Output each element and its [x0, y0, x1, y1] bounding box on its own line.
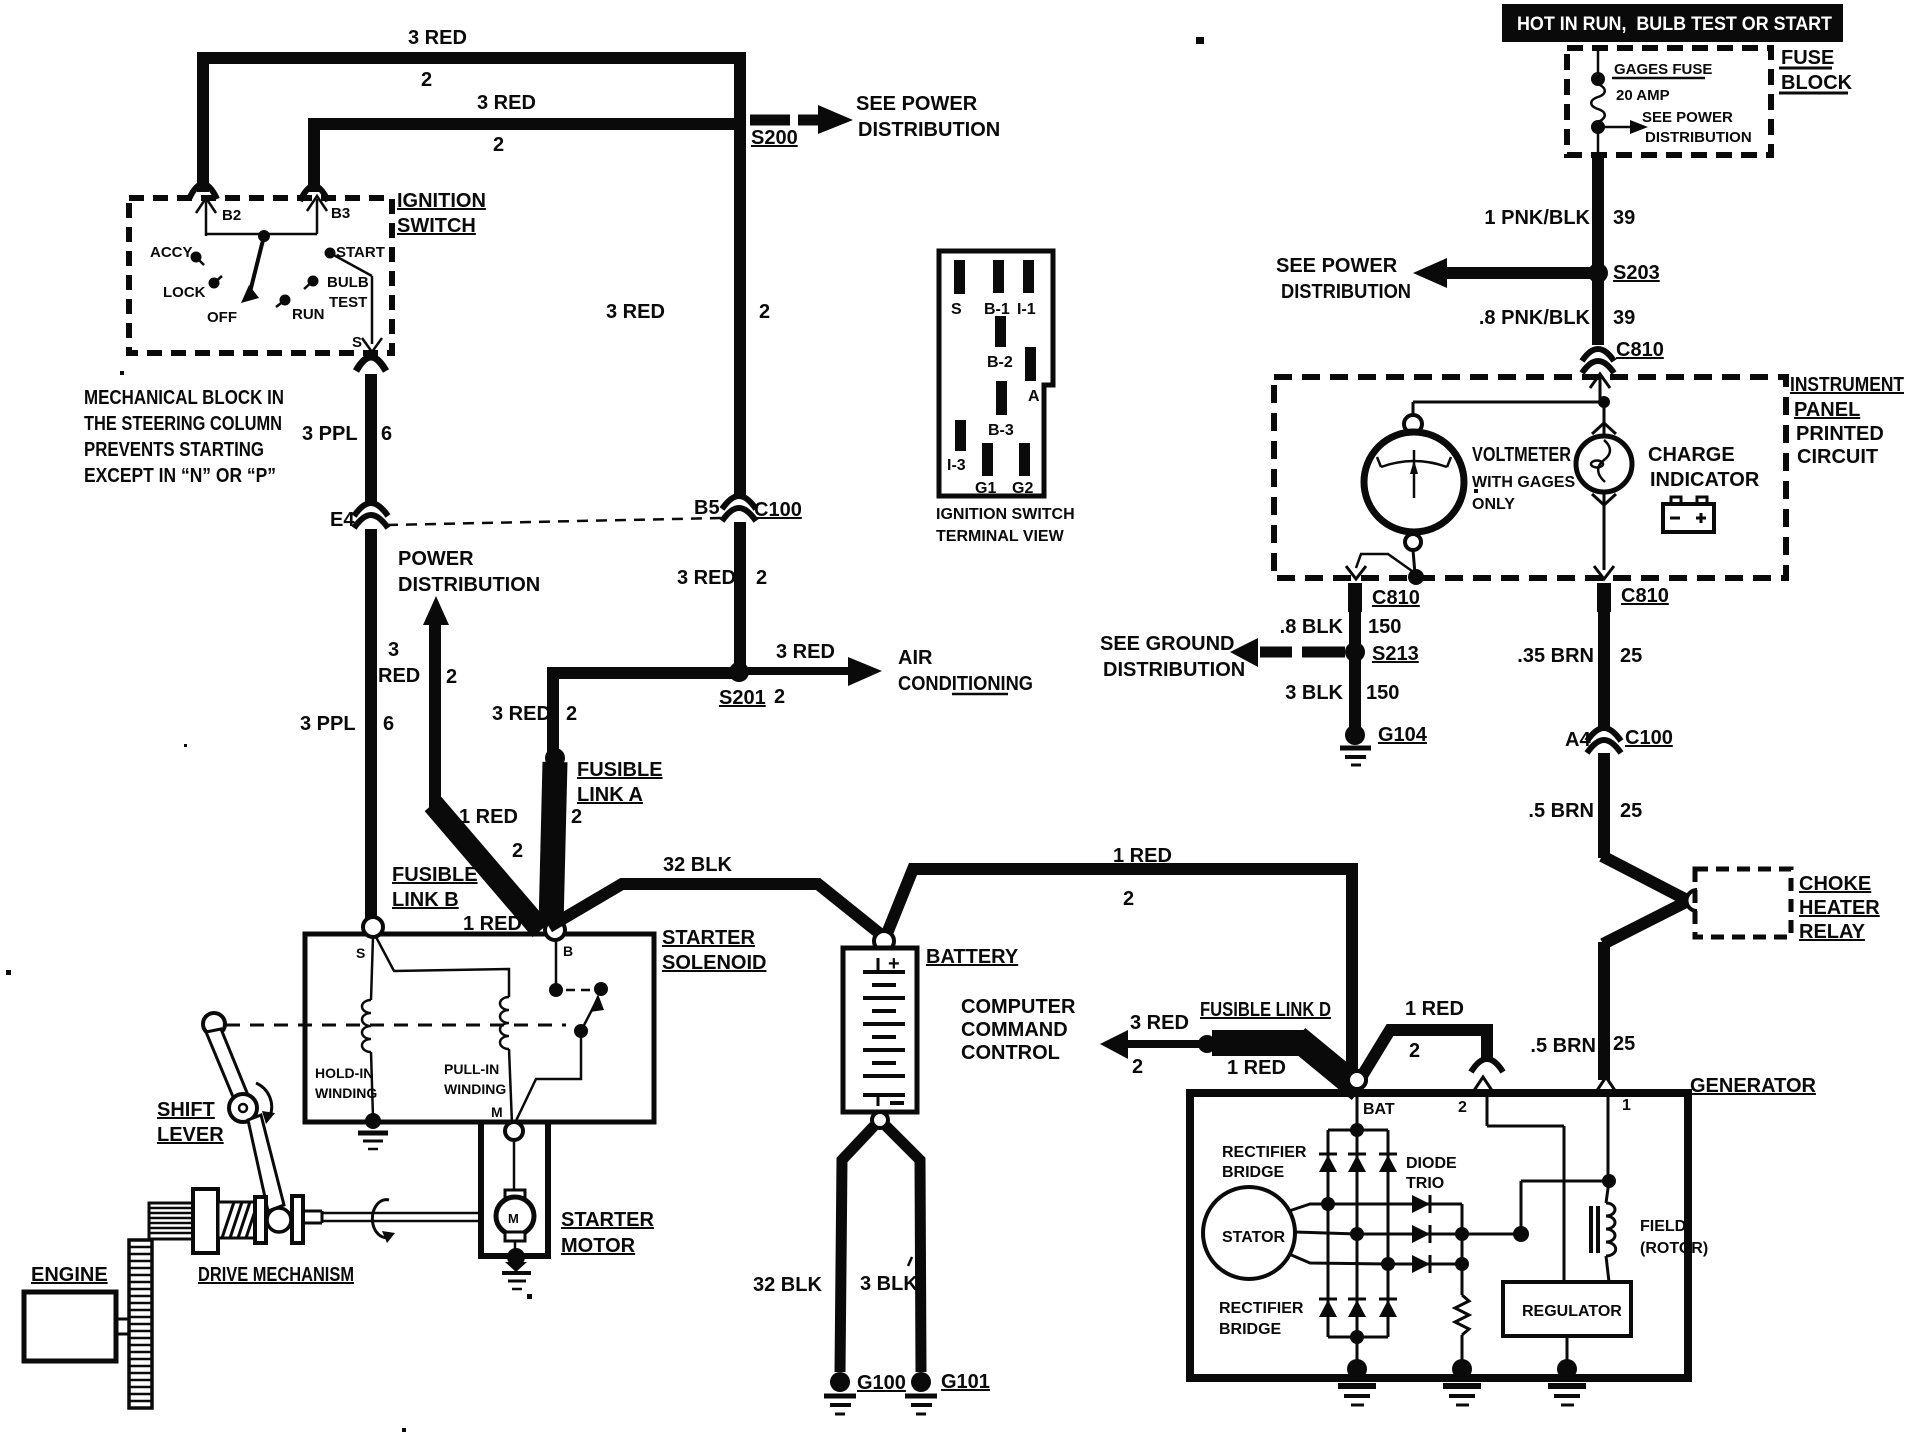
label CHOKE HEATER RELAY	[1799, 873, 1880, 943]
svg-text:WITH GAGES: WITH GAGES	[1472, 474, 1575, 491]
svg-text:C100: C100	[1625, 727, 1673, 749]
charge indicator lamp	[1576, 402, 1632, 579]
svg-text:1 PNK/BLK: 1 PNK/BLK	[1484, 207, 1590, 229]
svg-text:2: 2	[1458, 1099, 1467, 1116]
svg-text:S201: S201	[719, 687, 766, 709]
label 3 RED 2 (C100 wire)	[606, 301, 770, 323]
rectifier bottom bus	[1328, 1330, 1388, 1366]
svg-text:39: 39	[1613, 307, 1635, 329]
svg-text:DIODE: DIODE	[1406, 1155, 1457, 1172]
wire S201 to fusible link A	[492, 673, 739, 757]
svg-text:2: 2	[1132, 1056, 1143, 1078]
label DRIVE MECHANISM	[198, 1264, 354, 1286]
svg-text:2: 2	[571, 806, 582, 828]
wire trio to field node	[1462, 1174, 1616, 1242]
splice S213	[1345, 642, 1419, 665]
svg-text:S: S	[951, 301, 962, 318]
label RECTIFIER BRIDGE (bottom)	[1219, 1300, 1304, 1338]
wire 3 BLK S213 to G104	[1285, 652, 1399, 728]
svg-text:ENGINE: ENGINE	[31, 1264, 108, 1286]
svg-text:3 RED: 3 RED	[1130, 1012, 1189, 1034]
svg-text:25: 25	[1613, 1033, 1635, 1055]
svg-text:32 BLK: 32 BLK	[663, 854, 732, 876]
svg-text:SEE POWER: SEE POWER	[856, 93, 978, 115]
pin S	[951, 260, 965, 318]
wire 1 PNK/BLK fuse to S203	[1484, 155, 1635, 268]
wire regulator to ground	[1566, 1336, 1569, 1366]
svg-text:.5 BRN: .5 BRN	[1528, 800, 1594, 822]
solenoid moving contact arm	[514, 994, 604, 1125]
svg-text:THE STEERING COLUMN: THE STEERING COLUMN	[84, 413, 282, 435]
pin I-1	[1017, 260, 1036, 318]
terminal 1 arrow (generator)	[1596, 1077, 1631, 1114]
svg-text:25: 25	[1620, 645, 1642, 667]
svg-text:3 RED: 3 RED	[606, 301, 665, 323]
drive mechanism pinion	[149, 1203, 196, 1239]
svg-text:WINDING: WINDING	[315, 1085, 377, 1101]
svg-text:ACCY: ACCY	[150, 244, 193, 261]
svg-text:GAGES FUSE: GAGES FUSE	[1614, 61, 1712, 78]
label IGNITION SWITCH	[397, 190, 486, 237]
svg-text:RELAY: RELAY	[1799, 921, 1866, 943]
label CHARGE INDICATOR	[1648, 444, 1760, 491]
svg-text:PRINTED: PRINTED	[1796, 423, 1884, 445]
svg-text:EXCEPT IN “N” OR “P”: EXCEPT IN “N” OR “P”	[84, 465, 276, 487]
svg-text:1: 1	[1622, 1097, 1631, 1114]
svg-text:C810: C810	[1621, 585, 1669, 607]
svg-text:3 BLK: 3 BLK	[1285, 682, 1343, 704]
connector A4 C100	[1565, 727, 1673, 753]
terminal M (solenoid)	[491, 1104, 523, 1140]
svg-text:150: 150	[1368, 616, 1401, 638]
svg-text:TERMINAL VIEW: TERMINAL VIEW	[936, 528, 1065, 545]
drive mechanism screw	[218, 1202, 256, 1238]
note mechanical block	[84, 387, 284, 487]
svg-text:C810: C810	[1372, 587, 1420, 609]
ground G101	[905, 1371, 990, 1414]
arrow see ground distribution	[1100, 633, 1345, 681]
svg-text:MECHANICAL BLOCK IN: MECHANICAL BLOCK IN	[84, 387, 284, 409]
svg-text:REGULATOR: REGULATOR	[1522, 1303, 1622, 1320]
svg-text:CHOKE: CHOKE	[1799, 873, 1871, 895]
svg-text:3 RED: 3 RED	[477, 92, 536, 114]
drive mechanism ball	[267, 1208, 291, 1232]
svg-text:2: 2	[446, 666, 457, 688]
stator	[1203, 1187, 1388, 1279]
svg-text:2: 2	[756, 567, 767, 589]
svg-text:3 RED: 3 RED	[677, 567, 736, 589]
battery BT1	[843, 948, 917, 1112]
splice S201	[719, 662, 785, 709]
svg-text:A4: A4	[1565, 729, 1591, 751]
diode trio	[1328, 1195, 1469, 1273]
svg-text:S: S	[352, 334, 362, 351]
stator junction nodes	[1321, 1197, 1395, 1271]
svg-text:POWER: POWER	[398, 548, 474, 570]
svg-text:DRIVE MECHANISM: DRIVE MECHANISM	[198, 1264, 354, 1286]
terminal B3 arrow	[307, 196, 350, 234]
caption ignition switch terminal view	[936, 506, 1075, 545]
engine ring gear	[129, 1240, 152, 1408]
svg-text:PULL-IN: PULL-IN	[444, 1061, 499, 1077]
svg-text:DISTRIBUTION: DISTRIBUTION	[398, 574, 540, 596]
svg-text:3 PPL: 3 PPL	[302, 423, 358, 445]
ignition switch dashed box	[129, 198, 392, 353]
svg-text:BRIDGE: BRIDGE	[1219, 1321, 1282, 1338]
svg-text:INSTRUMENT: INSTRUMENT	[1790, 374, 1904, 396]
wire .35 BRN C810 to C100	[1517, 612, 1642, 730]
svg-text:DISTRIBUTION: DISTRIBUTION	[1103, 659, 1245, 681]
svg-text:RECTIFIER: RECTIFIER	[1219, 1300, 1304, 1317]
gages fuse F (GAGES FUSE 20 AMP)	[1591, 48, 1712, 155]
arrow 3 RED to computer command control	[1100, 1012, 1202, 1078]
svg-text:E4: E4	[330, 509, 355, 531]
label DIODE TRIO	[1406, 1155, 1457, 1192]
battery B- terminal	[872, 1112, 888, 1128]
ignition position RUN	[276, 295, 325, 324]
ground (starter motor)	[502, 1248, 531, 1289]
wire M to starter motor	[513, 1140, 516, 1192]
svg-text:TRIO: TRIO	[1406, 1175, 1444, 1192]
wire 32 BLK solenoid B to battery	[549, 854, 884, 937]
arrow 3 RED to air conditioning	[748, 641, 882, 686]
svg-text:STARTER: STARTER	[561, 1209, 655, 1231]
svg-text:SOLENOID: SOLENOID	[662, 952, 766, 974]
svg-text:3: 3	[388, 639, 399, 661]
connector hook (B3)	[300, 186, 328, 201]
svg-text:.35 BRN: .35 BRN	[1517, 645, 1594, 667]
svg-text:S: S	[356, 945, 365, 961]
svg-text:LINK B: LINK B	[392, 889, 459, 911]
svg-text:SWITCH: SWITCH	[397, 215, 476, 237]
splice S203	[1588, 262, 1660, 284]
label see power distribution (S200)	[856, 93, 1000, 141]
starter motor box	[478, 1124, 551, 1256]
svg-text:B2: B2	[222, 207, 241, 224]
svg-text:FUSIBLE LINK D: FUSIBLE LINK D	[1200, 999, 1331, 1021]
label STARTER MOTOR	[561, 1209, 655, 1257]
rectifier bridge top diodes	[1319, 1154, 1397, 1172]
connector C810 stub (right)	[1604, 583, 1669, 612]
svg-text:150: 150	[1366, 682, 1399, 704]
field rotor coil L1	[1591, 1181, 1616, 1282]
starter motor B1	[496, 1190, 534, 1252]
wire 3 RED C100 to S201	[677, 522, 767, 666]
svg-text:STATOR: STATOR	[1222, 1229, 1286, 1246]
svg-text:3 RED: 3 RED	[776, 641, 835, 663]
arrow see power distribution (S203)	[1276, 255, 1592, 303]
rectifier bridge bottom diodes	[1319, 1299, 1397, 1317]
connector C810 (top)	[1582, 339, 1664, 373]
wire 3 PPL E4 to solenoid S	[300, 529, 394, 920]
connector (ignition S output)	[356, 357, 386, 371]
ground (rectifier)	[1338, 1359, 1376, 1405]
svg-text:3 RED: 3 RED	[408, 27, 467, 49]
voltmeter M1	[1364, 415, 1464, 550]
svg-text:C810: C810	[1616, 339, 1664, 361]
svg-text:ONLY: ONLY	[1472, 496, 1515, 513]
label GENERATOR	[1690, 1075, 1816, 1097]
regulator U1	[1503, 1282, 1631, 1336]
svg-text:B-3: B-3	[988, 422, 1014, 439]
connector hook (B2)	[189, 184, 217, 199]
svg-text:BULB: BULB	[327, 274, 369, 291]
svg-text:HOLD-IN: HOLD-IN	[315, 1065, 373, 1081]
svg-text:IGNITION SWITCH: IGNITION SWITCH	[936, 506, 1075, 523]
battery B+ terminal	[874, 931, 894, 951]
connector C810 stub (left)	[1355, 583, 1420, 612]
svg-text:CIRCUIT: CIRCUIT	[1797, 446, 1878, 468]
svg-text:PREVENTS STARTING: PREVENTS STARTING	[84, 439, 264, 461]
svg-text:DISTRIBUTION: DISTRIBUTION	[1281, 281, 1411, 303]
svg-text:HOT IN RUN, BULB TEST OR STAR: HOT IN RUN, BULB TEST OR START	[1517, 14, 1832, 35]
wire .5 BRN C100 to choke relay	[1528, 753, 1685, 899]
arrow power distribution (up)	[378, 548, 540, 808]
node fusible link A top	[545, 748, 565, 768]
pin B-1	[984, 260, 1010, 318]
svg-text:LOCK: LOCK	[163, 284, 206, 301]
svg-text:CONDITIONING: CONDITIONING	[898, 673, 1033, 695]
svg-text:DISTRIBUTION: DISTRIBUTION	[1645, 129, 1752, 146]
dashed mechanical link line	[226, 1024, 566, 1027]
svg-text:2: 2	[493, 134, 504, 156]
drive mechanism plate	[255, 1197, 266, 1243]
svg-text:RED: RED	[378, 665, 420, 687]
svg-text:B: B	[563, 943, 573, 959]
svg-text:FUSIBLE: FUSIBLE	[392, 864, 478, 886]
ground G100	[824, 1372, 906, 1414]
wire .8 PNK/BLK S203 to C810	[1479, 273, 1635, 345]
label FUSE BLOCK	[1779, 47, 1853, 94]
svg-text:G1: G1	[975, 480, 996, 497]
label VOLTMETER WITH GAGES ONLY	[1472, 444, 1575, 513]
svg-text:PANEL: PANEL	[1794, 399, 1860, 421]
svg-text:HEATER: HEATER	[1799, 897, 1880, 919]
terminal B (solenoid)	[545, 920, 573, 959]
wire voltmeter bottom to C810	[1346, 550, 1424, 585]
svg-text:1 RED: 1 RED	[1227, 1057, 1286, 1079]
speck marks (scan artifacts)	[6, 37, 1478, 1432]
svg-text:DISTRIBUTION: DISTRIBUTION	[858, 119, 1000, 141]
svg-text:STARTER: STARTER	[662, 927, 756, 949]
svg-text:3 RED: 3 RED	[492, 703, 551, 725]
starter solenoid box	[305, 934, 654, 1122]
ignition position ACCY	[150, 244, 204, 265]
svg-text:2: 2	[421, 69, 432, 91]
label FIELD (ROTOR)	[1640, 1218, 1708, 1257]
terminal BAT node	[1348, 1071, 1395, 1130]
wire S to hold-in winding	[371, 937, 373, 1000]
shaft rotation arrow	[372, 1200, 395, 1243]
ground G104	[1340, 724, 1428, 765]
wire voltmeter to charge node	[1413, 402, 1604, 416]
shift lever pivot circle	[203, 1013, 225, 1035]
fuse block dashed box	[1567, 48, 1771, 155]
ignition position BULB TEST	[304, 274, 369, 311]
svg-text:S203: S203	[1613, 262, 1660, 284]
shift lever arm	[206, 1029, 284, 1211]
svg-text:S213: S213	[1372, 643, 1419, 665]
wire 3 RED second feed (B3)	[314, 92, 740, 192]
generator box	[1190, 1093, 1688, 1378]
splice S200	[750, 105, 853, 149]
ground (regulator)	[1548, 1359, 1586, 1405]
label COMPUTER COMMAND CONTROL	[961, 996, 1076, 1064]
resistor R1	[1455, 1264, 1469, 1366]
svg-text:SEE GROUND: SEE GROUND	[1100, 633, 1234, 655]
terminal B2 arrow	[196, 198, 241, 236]
pin G1	[975, 443, 996, 497]
ignition position LOCK	[163, 276, 222, 301]
svg-text:IGNITION: IGNITION	[397, 190, 486, 212]
svg-text:CHARGE: CHARGE	[1648, 444, 1735, 466]
svg-text:BRIDGE: BRIDGE	[1222, 1164, 1285, 1181]
svg-text:2: 2	[1123, 888, 1134, 910]
svg-text:2: 2	[566, 703, 577, 725]
svg-text:25: 25	[1620, 800, 1642, 822]
svg-text:I-1: I-1	[1017, 301, 1036, 318]
svg-text:INDICATOR: INDICATOR	[1650, 469, 1760, 491]
wire dashed E4 to C100	[387, 518, 722, 525]
svg-text:I-3: I-3	[947, 457, 966, 474]
svg-text:B-2: B-2	[987, 354, 1013, 371]
wire .5 BRN choke relay to generator terminal 1	[1530, 902, 1686, 1080]
svg-text:32 BLK: 32 BLK	[753, 1274, 822, 1296]
wire START to S terminal	[330, 253, 382, 352]
banner HOT IN RUN, BULB TEST OR START	[1502, 4, 1843, 42]
svg-text:MOTOR: MOTOR	[561, 1235, 636, 1257]
ground (resistor)	[1443, 1359, 1481, 1405]
svg-text:3 PPL: 3 PPL	[300, 713, 356, 735]
pin I-3	[947, 420, 966, 474]
wire 3 PPL ignition to E4	[302, 374, 392, 503]
svg-text:START: START	[336, 244, 385, 261]
svg-text:C100: C100	[754, 499, 802, 521]
svg-text:B-1: B-1	[984, 301, 1010, 318]
wire 3 RED top feed (B2)	[203, 27, 740, 497]
svg-text:M: M	[508, 1211, 519, 1226]
wire terminal 1 to field	[1607, 1093, 1610, 1181]
label SHIFT LEVER	[157, 1099, 224, 1146]
svg-text:WINDING: WINDING	[444, 1081, 506, 1097]
engine block	[24, 1292, 130, 1361]
svg-text:6: 6	[381, 423, 392, 445]
svg-text:BLOCK: BLOCK	[1781, 72, 1853, 94]
pin A	[1025, 347, 1040, 405]
fusible link D	[1200, 999, 1360, 1090]
node fusible link D	[1198, 1035, 1216, 1053]
ground (solenoid)	[358, 1113, 388, 1149]
battery icon (charge indicator)	[1663, 497, 1714, 532]
wire 32 BLK battery to G100	[753, 1126, 874, 1372]
wire 3 BLK battery to G101	[860, 1126, 921, 1372]
svg-text:2: 2	[512, 840, 523, 862]
fusible link B	[392, 804, 541, 935]
svg-text:G100: G100	[857, 1372, 906, 1394]
pin B-2	[987, 316, 1013, 371]
svg-text:COMMAND: COMMAND	[961, 1019, 1068, 1041]
svg-text:.8 BLK: .8 BLK	[1280, 616, 1344, 638]
wire .8 BLK C810 to S213	[1280, 612, 1402, 645]
rectifier bus junction	[1328, 1123, 1388, 1337]
svg-text:SEE POWER: SEE POWER	[1276, 255, 1398, 277]
wire 1 RED BAT to terminal 2	[1362, 998, 1503, 1076]
svg-text:6: 6	[383, 713, 394, 735]
svg-text:39: 39	[1613, 207, 1635, 229]
svg-text:RUN: RUN	[292, 306, 325, 323]
label INSTRUMENT PANEL PRINTED CIRCUIT	[1790, 374, 1904, 468]
pull-in winding L-pull	[444, 997, 512, 1124]
svg-text:M: M	[491, 1104, 503, 1120]
svg-text:3 BLK: 3 BLK	[860, 1273, 918, 1295]
svg-text:RECTIFIER: RECTIFIER	[1222, 1144, 1307, 1161]
svg-text:VOLTMETER: VOLTMETER	[1472, 444, 1571, 466]
svg-text:1 RED: 1 RED	[459, 806, 518, 828]
terminal BAT connection circle	[1348, 1071, 1366, 1089]
svg-text:GENERATOR: GENERATOR	[1690, 1075, 1816, 1097]
svg-text:FUSIBLE: FUSIBLE	[577, 759, 663, 781]
svg-text:CONTROL: CONTROL	[961, 1042, 1060, 1064]
label STARTER SOLENOID	[662, 927, 766, 974]
svg-text:(ROTOR): (ROTOR)	[1640, 1240, 1708, 1257]
svg-text:FIELD: FIELD	[1640, 1218, 1686, 1235]
instrument panel printed circuit dashed box	[1274, 377, 1786, 578]
svg-text:20 AMP: 20 AMP	[1616, 87, 1670, 104]
ignition switch rotor wire	[206, 230, 317, 303]
fusible link A	[459, 759, 663, 926]
svg-text:LEVER: LEVER	[157, 1124, 224, 1146]
label AIR CONDITIONING	[898, 647, 1033, 695]
pin G2	[1012, 443, 1033, 497]
svg-text:1 RED: 1 RED	[1113, 845, 1172, 867]
ignition switch terminal view connector	[939, 251, 1053, 496]
solenoid contact (B side)	[549, 940, 608, 997]
svg-text:AIR: AIR	[898, 647, 933, 669]
hold-in winding L-hold	[315, 1000, 377, 1117]
svg-text:SEE POWER: SEE POWER	[1642, 109, 1733, 126]
svg-text:COMPUTER: COMPUTER	[961, 996, 1076, 1018]
svg-text:BAT: BAT	[1363, 1101, 1395, 1118]
connector C100 (B5)	[694, 496, 802, 521]
wire terminal 2 to regulator	[1487, 1096, 1564, 1282]
svg-text:B3: B3	[331, 205, 350, 222]
svg-text:.8 PNK/BLK: .8 PNK/BLK	[1479, 307, 1591, 329]
svg-text:G104: G104	[1378, 724, 1428, 746]
wire 1 RED battery to generator BAT	[886, 845, 1352, 1072]
arrow see power distribution (fuse block)	[1598, 109, 1752, 146]
svg-text:FUSE: FUSE	[1781, 47, 1834, 69]
label RECTIFIER BRIDGE (top)	[1222, 1144, 1307, 1181]
svg-text:.5 BRN: .5 BRN	[1530, 1035, 1596, 1057]
ignition position START	[325, 244, 385, 261]
terminal 2 arrow (generator)	[1458, 1077, 1493, 1116]
svg-text:SHIFT: SHIFT	[157, 1099, 215, 1121]
svg-text:2: 2	[1409, 1040, 1420, 1062]
wire S to pull-in winding	[376, 937, 509, 997]
pin B-3	[988, 381, 1014, 439]
svg-text:G101: G101	[941, 1371, 990, 1393]
svg-text:B5: B5	[694, 497, 720, 519]
svg-text:TEST: TEST	[329, 294, 367, 311]
svg-text:OFF: OFF	[207, 309, 237, 326]
connector E4	[330, 503, 388, 531]
terminal S (solenoid)	[356, 917, 383, 961]
choke heater relay dashed box	[1687, 869, 1792, 937]
svg-text:2: 2	[774, 686, 785, 708]
svg-text:BATTERY: BATTERY	[926, 946, 1019, 968]
node junction (charge wire)	[1598, 396, 1610, 408]
svg-text:A: A	[1028, 388, 1040, 405]
